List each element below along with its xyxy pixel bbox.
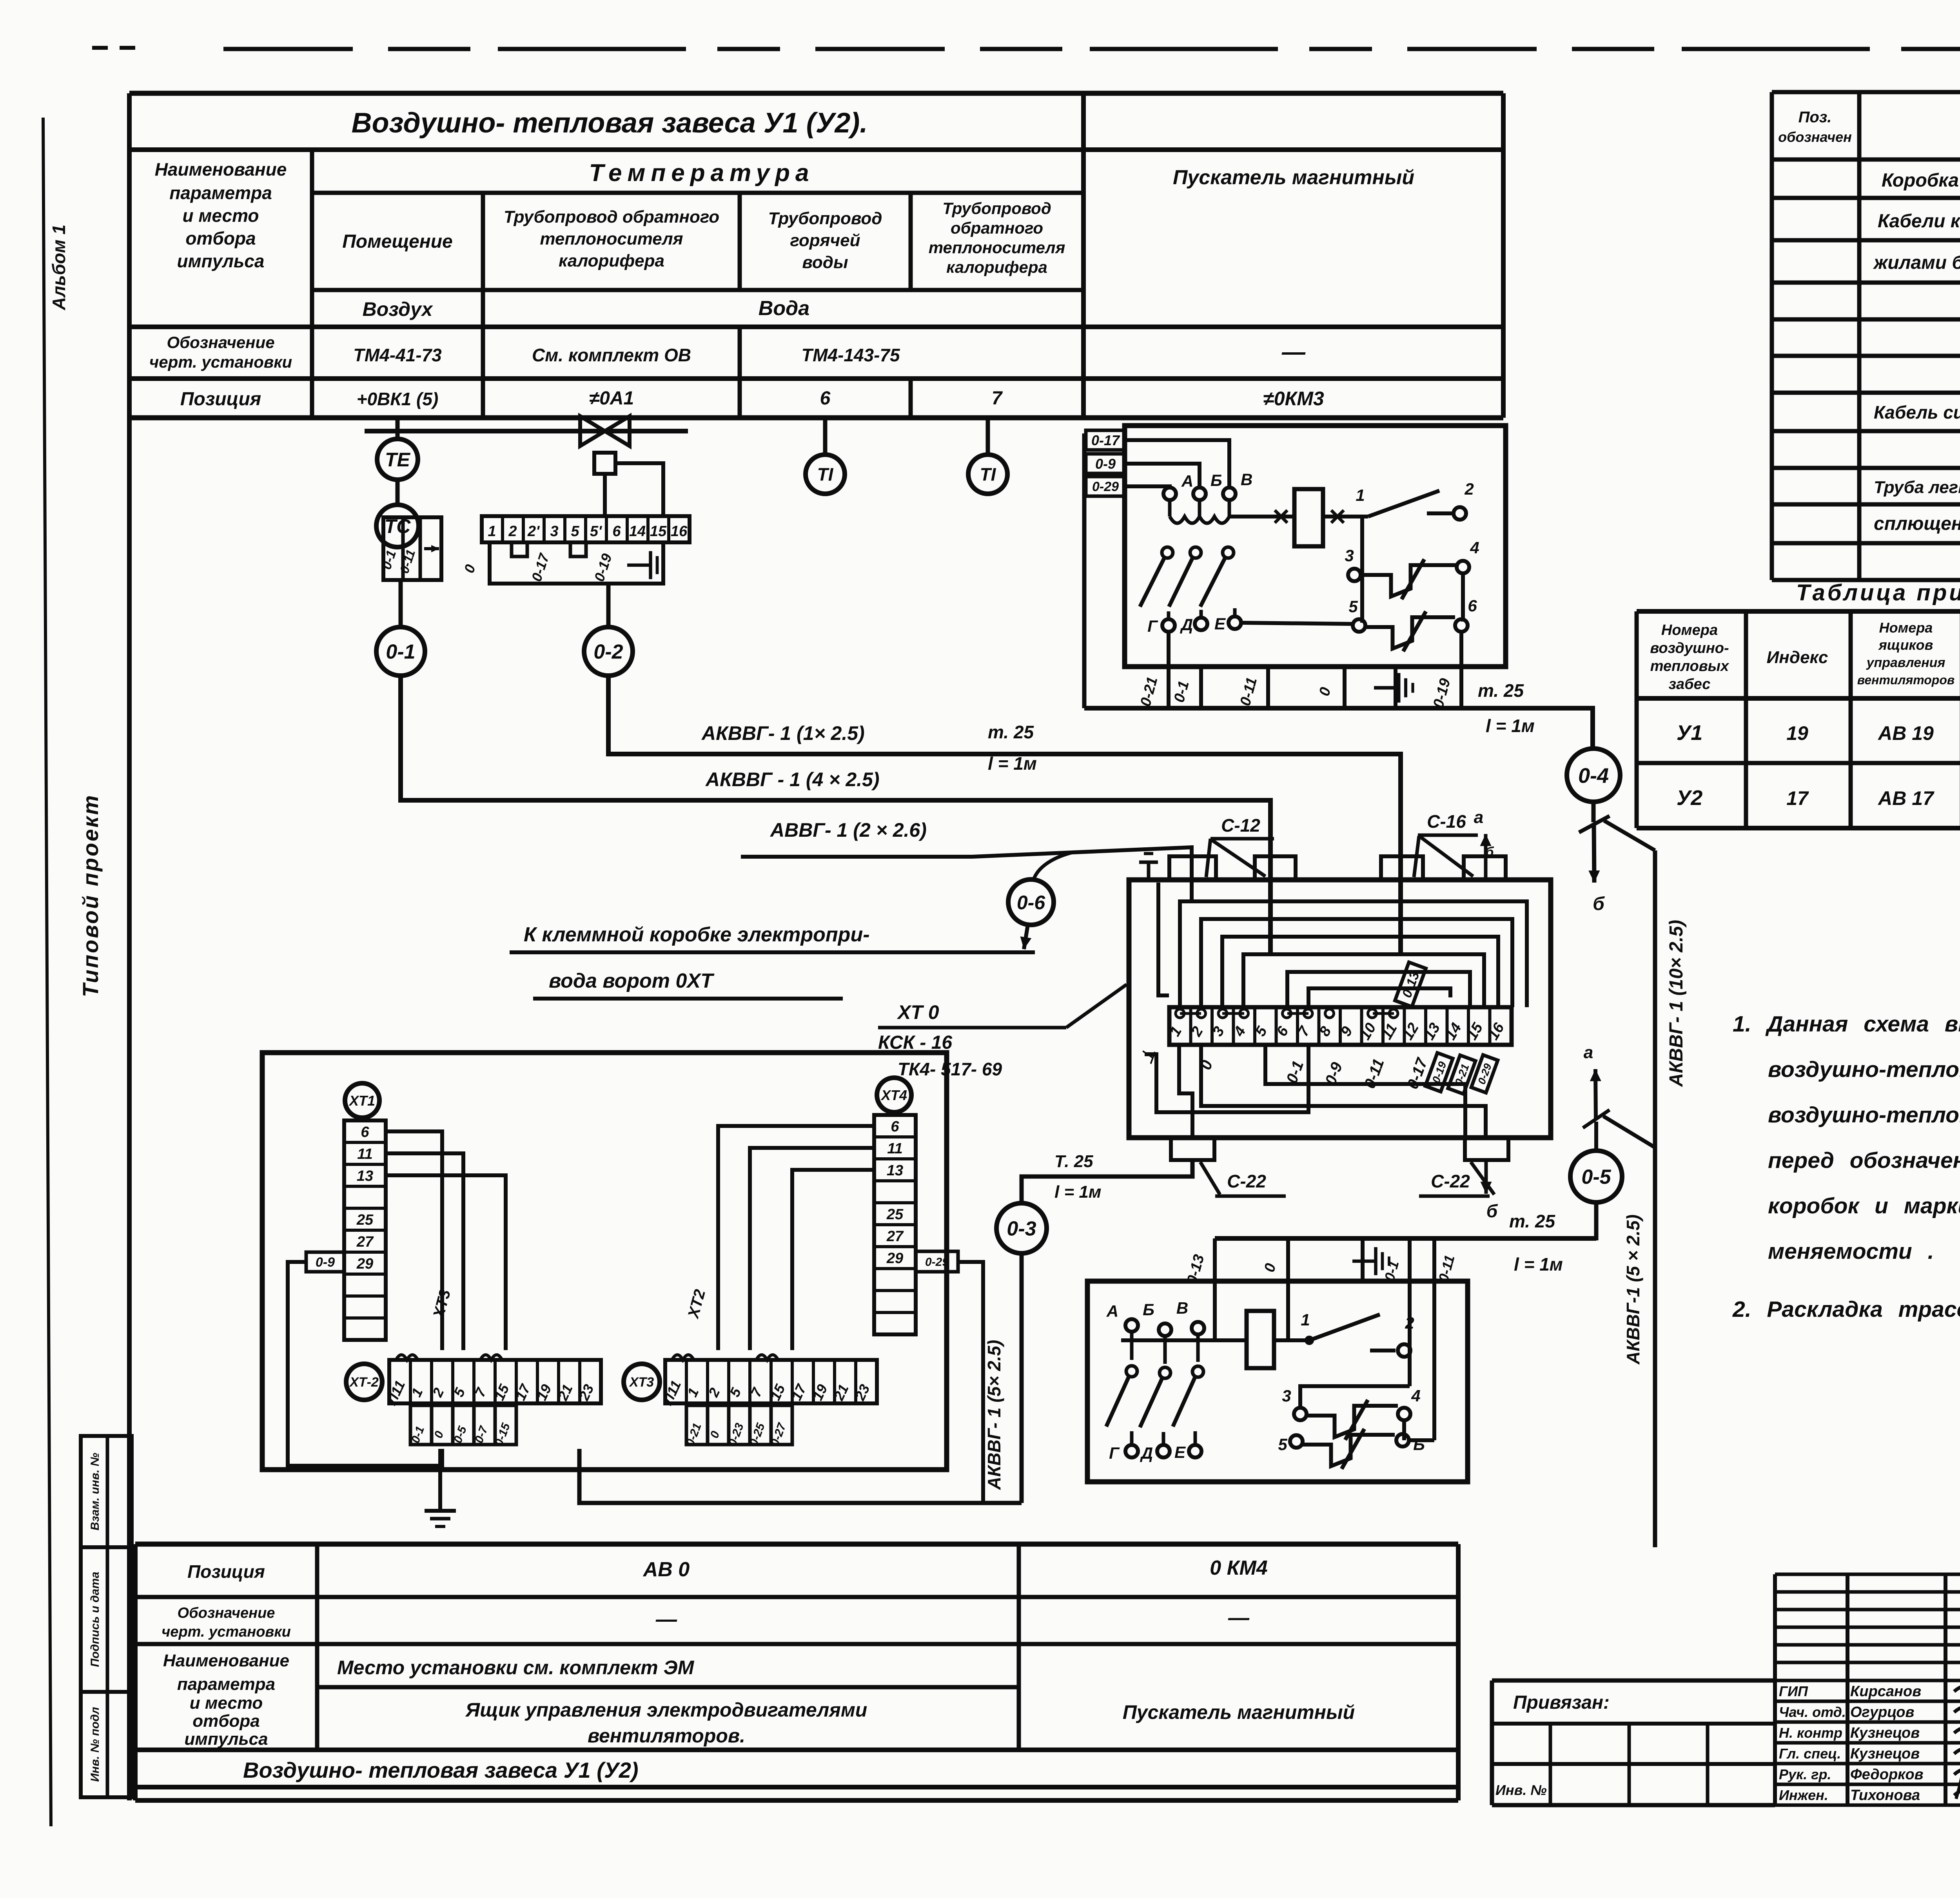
svg-text:воздушно-тепловых завес У2: воздушно-тепловых завес У2. с указанием … [1768,1102,1960,1128]
svg-text:горячей: горячей [790,231,860,250]
terminal column XT1 [344,1083,386,1340]
thermometer TI (pos 6) [823,418,828,454]
svg-text:2: 2 [1464,480,1474,498]
signature scribbles [1954,1686,1960,1704]
svg-text:0-6: 0-6 [1017,892,1045,914]
label C-22 left [1200,1162,1286,1196]
svg-text:Воздух: Воздух [363,298,434,320]
junction box internal wiring loops [1158,880,1527,1007]
svg-text:ТЕ: ТЕ [385,449,411,471]
svg-text:0-29: 0-29 [925,1256,949,1269]
svg-text:б: б [1593,894,1605,914]
svg-text:а: а [1474,808,1483,827]
svg-text:перед обозначением аппар: перед обозначением аппаратов, приборов, … [1768,1148,1960,1173]
svg-text:коробок и маркировке тра: коробок и маркировке трасс согласно табл… [1768,1193,1960,1218]
svg-text:2: 2 [1405,1314,1414,1332]
svg-text:С-22: С-22 [1431,1171,1470,1191]
junction box labels XT0 KSK-16 TK4-517-69 [878,984,1127,1079]
svg-text:11: 11 [357,1146,372,1162]
title block: binding box [1492,1680,1775,1805]
svg-text:l = 1м: l = 1м [1514,1254,1563,1274]
svg-text:вентиляторов: вентиляторов [1857,673,1955,687]
notes text block [1732,1012,1960,1322]
wires XT1 to strip XT-2 [386,1131,506,1350]
svg-text:Индекс: Индекс [1767,648,1828,667]
wire TE-TC [396,480,400,506]
table: applicability and route lengths [1637,580,1960,828]
svg-text:Номера: Номера [1661,622,1718,638]
svg-text:1: 1 [1356,486,1365,504]
svg-text:15: 15 [650,523,667,540]
svg-text:25: 25 [886,1206,904,1223]
svg-text:АВ 17: АВ 17 [1877,787,1935,809]
svg-text:Кирсанов: Кирсанов [1850,1683,1921,1700]
svg-text:6: 6 [612,523,621,540]
svg-text:жилами без защитного покро: жилами без защитного покрова [1873,252,1960,273]
svg-text:т. 25: т. 25 [988,722,1034,742]
svg-text:обратного: обратного [951,219,1043,237]
svg-text:АВ 0: АВ 0 [642,1558,690,1581]
lower pole contacts [1140,547,1235,619]
svg-text:калорифера: калорифера [946,258,1047,276]
svg-text:0-5: 0-5 [1581,1166,1611,1189]
svg-text:29: 29 [886,1250,903,1267]
svg-text:1: 1 [488,523,496,540]
terminal column XT4 [874,1078,916,1334]
svg-text:АКВВГ- 1 (5× 2.5): АКВВГ- 1 (5× 2.5) [984,1340,1004,1490]
svg-text:АВ 19: АВ 19 [1877,722,1934,744]
svg-text:Инв. №: Инв. № [1495,1782,1547,1798]
tag 0-9 at XT1 [306,1252,344,1272]
starter 2 lower pole contacts [1106,1366,1203,1445]
contact 5-6 with thermal element [1348,596,1477,651]
svg-text:4: 4 [1411,1387,1420,1405]
svg-text:воздушно-: воздушно- [1650,640,1729,656]
svg-text:У1: У1 [1677,721,1703,745]
wire 0-29 to terminal A [1125,486,1170,488]
svg-text:6: 6 [361,1124,369,1140]
svg-text:Б: Б [1143,1300,1154,1319]
svg-text:Чач. отд.: Чач. отд. [1779,1704,1846,1720]
svg-text:С-16: С-16 [1427,811,1466,832]
svg-text:3: 3 [1282,1387,1291,1405]
svg-text:Место установки см. комплект: Место установки см. комплект ЭМ [337,1657,695,1679]
svg-text:АКВВГ- 1 (1× 2.5): АКВВГ- 1 (1× 2.5) [701,722,865,744]
svg-text:Наименование: Наименование [163,1651,289,1670]
svg-text:К клеммной коробке электро: К клеммной коробке электропри- [524,923,870,946]
ground below strip XT-2 [425,1449,456,1526]
svg-text:0-3: 0-3 [1007,1218,1036,1240]
svg-text:0-1: 0-1 [386,641,415,663]
svg-text:19: 19 [1786,722,1808,744]
wire 0-2 down right (AKVVG-1 1x2.5) [608,676,1401,952]
svg-text:Т. 25: Т. 25 [1054,1152,1093,1171]
wire tag 0-29 [1086,477,1125,496]
node vertical [1360,517,1364,623]
svg-text:5': 5' [590,523,603,540]
svg-text:Коробка соединительная КСК: Коробка соединительная КСК-16 [1882,170,1960,191]
marker b below right gland [1480,1160,1498,1221]
svg-text:ТІ: ТІ [817,464,834,485]
svg-text:В: В [1241,470,1252,489]
svg-text:Труба легкая неоцинкованная: Труба легкая неоцинкованная с полностью [1874,478,1960,497]
wire TC box to 0-1 circle [399,580,403,627]
svg-text:0-4: 0-4 [1578,764,1609,787]
wires XT4 to strip XT3 [718,1126,874,1350]
wire coil to contact [1274,1338,1309,1342]
marker a above 0-5 [1583,1043,1655,1151]
svg-text:14: 14 [629,523,646,540]
svg-text:Таблица применяемости и д: Таблица применяемости и длин трасс. [1796,580,1960,605]
text to gates terminal box [510,923,1035,999]
svg-text:Кабели контрольные с алюмин: Кабели контрольные с алюминиевыми [1878,211,1960,232]
wire 0-17 to terminal V [1125,440,1229,488]
svg-text:5: 5 [1278,1435,1287,1454]
wire tag 0-9 [1086,454,1125,473]
svg-text:4: 4 [1470,538,1479,557]
svg-text:забес: забес [1669,676,1711,692]
junction box lower wiring [1145,1045,1486,1138]
svg-text:ГИП: ГИП [1779,1683,1808,1699]
svg-text:ТК4- 517- 69: ТК4- 517- 69 [898,1059,1002,1079]
label C-22 right [1419,1162,1494,1196]
svg-text:5: 5 [1348,597,1358,616]
svg-text:У2: У2 [1677,786,1703,810]
wire coil to contact node [1323,515,1368,518]
svg-text:3: 3 [550,523,558,540]
terminal strip XT3 [624,1355,877,1408]
svg-text:7: 7 [992,388,1003,409]
svg-text:Тихонова: Тихонова [1850,1787,1920,1804]
svg-text:Температура: Температура [589,160,815,187]
label C-12 with leaders [1206,815,1274,877]
gate control terminal enclosure [262,1053,947,1470]
svg-text:Поз.: Поз. [1798,109,1832,126]
svg-text:5: 5 [571,523,579,540]
title block: signature table [1775,1574,1960,1805]
svg-text:13: 13 [887,1162,903,1179]
bottom gland C-22 left [1171,1138,1214,1160]
svg-text:Инжен.: Инжен. [1779,1787,1828,1803]
temperature sensor TC [376,505,419,547]
starter 2 main node wire [1121,1338,1247,1342]
terminal strip XT-2 [346,1355,601,1408]
svg-text:l = 1м: l = 1м [1486,716,1535,736]
temperature sensor TE [377,439,418,480]
svg-text:Обозначение: Обозначение [167,333,274,352]
starter 2 contact 1-2 [1301,1311,1414,1357]
svg-text:Воздушно- тепловая завес: Воздушно- тепловая завеса У1 (У2). [352,107,868,139]
svg-text:ТМ4-143-75: ТМ4-143-75 [801,345,900,365]
contact 1-2 [1356,480,1474,520]
svg-text:Привязан:: Привязан: [1513,1692,1610,1713]
svg-text:КСК - 16: КСК - 16 [878,1032,952,1053]
svg-text:16: 16 [671,523,688,540]
wire from table to TE [396,418,400,439]
svg-text:1: 1 [1301,1311,1310,1329]
wire 0-5 down to starter 2 line [1594,1202,1599,1240]
magnetic starter column header [1173,166,1414,410]
svg-text:l = 1м: l = 1м [1054,1182,1101,1202]
XT-2 bottom tags [409,1405,516,1448]
svg-text:29: 29 [356,1256,373,1272]
svg-text:б: б [1485,845,1494,859]
0-4 cable cut to b [1579,802,1687,1547]
wire 0-1 down and right (AKVVG-1 4x2.5) [401,676,1270,952]
svg-text:С-12: С-12 [1221,815,1260,836]
svg-text:13: 13 [357,1168,373,1184]
trace circle 0-4 [1567,749,1620,802]
marker a above gland 4 [1474,808,1494,880]
svg-text:Трубопровод: Трубопровод [942,199,1051,218]
svg-text:меняемости .: меняемости . [1768,1239,1934,1264]
starter 2 contact 3-4 [1282,1386,1420,1440]
starter output wire to 0-4 (pipe t.25) [1084,708,1593,747]
svg-text:А: А [1181,472,1193,490]
svg-text:≠0А1: ≠0А1 [589,388,634,409]
trace circle 0-2 [584,627,633,676]
svg-text:воды: воды [802,253,848,272]
svg-text:т. 25: т. 25 [1478,680,1524,701]
wire tag 0-17 [1086,430,1125,450]
magnetic starter KM3 enclosure [1125,426,1506,667]
margin boxes with inventory labels [81,1436,132,1797]
label C-16 with leaders [1414,811,1478,877]
svg-text:АВВГ- 1 (2 × 2.6): АВВГ- 1 (2 × 2.6) [769,819,927,841]
svg-text:Кузнецов: Кузнецов [1850,1746,1920,1762]
wire 0-3 to junction box [1022,1160,1192,1202]
svg-text:Помещение: Помещение [342,231,452,252]
junction box XT0 KSK-16 enclosure [1129,880,1551,1138]
svg-text:обозначен: обозначен [1778,129,1852,145]
cable to gates label AVVG-1(2x2.6) and 0-6 [741,819,1192,880]
table T1 title text [352,107,868,139]
svg-text:АКВВГ-1 (5 × 2.5): АКВВГ-1 (5 × 2.5) [1623,1215,1643,1365]
svg-text:теплоносителя: теплоносителя [540,229,683,248]
svg-text:6: 6 [891,1118,899,1135]
svg-text:27: 27 [886,1228,904,1245]
bottom gland C-22 right [1465,1138,1508,1160]
tag 0-29 at XT4 [916,1251,958,1272]
svg-text:Трубопровод обратного: Трубопровод обратного [504,207,719,227]
svg-text:0-2: 0-2 [593,641,623,663]
svg-text:С-22: С-22 [1227,1171,1266,1191]
svg-text:вентиляторов.: вентиляторов. [588,1725,745,1747]
svg-text:Подпись и дата: Подпись и дата [89,1572,102,1667]
svg-text:Обозначение: Обозначение [178,1605,275,1621]
svg-text:теплоносителя: теплоносителя [929,238,1065,257]
svg-text:1. Данная схема внешни: 1. Данная схема внешних проводок выполне… [1733,1012,1960,1037]
wire 0-9 to terminal B [1125,464,1200,488]
svg-text:параметра: параметра [169,183,272,203]
table: parts list (top-right) [1772,92,1960,580]
gland C-12 left pair [1169,856,1216,880]
bottom table texts [162,1557,1355,1782]
starter bottom risers with tags [1137,632,1461,710]
svg-text:Кузнецов: Кузнецов [1850,1725,1920,1741]
svg-text:Позиция: Позиция [180,389,261,410]
table: parameter header table (top-left) [129,93,1503,1800]
svg-text:6: 6 [820,388,831,409]
svg-text:2': 2' [527,523,540,540]
svg-text:Типовой проект: Типовой проект [78,794,103,997]
table T1 header texts [149,159,1065,410]
contact 3-4 with thermal element [1345,538,1479,622]
svg-text:Номера: Номера [1879,620,1933,636]
trace circle 0-1 [376,627,425,676]
svg-text:+0ВК1 (5): +0ВК1 (5) [357,389,439,409]
svg-text:Е: Е [1214,615,1226,633]
magnetic starter KM4 enclosure [1087,1281,1468,1482]
svg-text:Ящик управления электро: Ящик управления электродвигателями [465,1699,867,1721]
svg-text:отбора: отбора [185,228,256,248]
svg-text:б: б [1486,1201,1498,1221]
svg-text:сплющенным гратом.: сплющенным гратом. [1874,513,1960,534]
starter terminals A B V [1163,470,1252,500]
bottom collector wire [579,1449,1022,1503]
svg-text:17: 17 [1786,787,1809,809]
junction box terminal strip 1-16 [1167,1007,1512,1045]
svg-text:Федорков: Федорков [1850,1766,1924,1783]
svg-text:импульса: импульса [184,1729,268,1749]
svg-text:а: а [1584,1043,1593,1062]
starter left feeder wire [1082,433,1087,708]
svg-text:ТМ4-41-73: ТМ4-41-73 [353,345,442,365]
wire 0-3 down to loop [1020,1253,1024,1503]
svg-text:Взам. инв. №: Взам. инв. № [89,1453,102,1530]
trace circle 0-3 [996,1203,1047,1253]
svg-text:См. комплект ОВ: См. комплект ОВ [532,345,691,365]
svg-text:Кабель силовой с алюминиевым: Кабель силовой с алюминиевыми жилами [1874,402,1960,422]
terminals G D E [1147,615,1353,635]
svg-text:черт. установки: черт. установки [149,353,292,371]
svg-text:Е: Е [1174,1443,1186,1461]
trace circle 0-6 [1008,879,1054,925]
svg-text:черт. установки: черт. установки [162,1624,291,1640]
table: bottom equipment table [135,1544,1458,1800]
XT3 bottom tags [684,1405,792,1448]
starter 2 terminals G D E [1109,1443,1201,1462]
svg-text:Вода: Вода [759,297,809,320]
starter 2 contact 5-B [1278,1429,1434,1469]
valve with actuator [365,416,688,474]
svg-text:и место: и место [190,1693,263,1713]
trace circle 0-5 [1570,1151,1622,1202]
svg-text:0-9: 0-9 [316,1255,335,1270]
svg-text:Б: Б [1210,471,1222,489]
svg-text:импульса: импульса [177,251,265,271]
junction box vent symbol [1139,854,1158,880]
svg-text:воздушно-тепловой завесы: воздушно-тепловой завесы У1 и действител… [1768,1057,1960,1082]
svg-text:2. Раскладка трасс 0-1 ...: 2. Раскладка трасс 0-1 ...... 0-6 лист 1… [1732,1297,1960,1322]
svg-text:В: В [1176,1299,1188,1317]
svg-text:отбора: отбора [192,1711,260,1731]
sensor terminal box with 0-1 0-11 and arrow [379,517,441,580]
svg-text:Позиция: Позиция [187,1561,265,1582]
svg-text:2: 2 [508,523,517,540]
svg-text:3: 3 [1345,546,1354,565]
svg-text:6: 6 [1468,596,1477,615]
svg-text:вода ворот 0ХТ: вода ворот 0ХТ [549,970,715,992]
svg-text:0 КМ4: 0 КМ4 [1210,1557,1268,1579]
svg-text:ящиков: ящиков [1878,637,1933,653]
svg-text:Наименование: Наименование [155,159,287,179]
valve terminal strip 1..16 [482,516,690,542]
svg-text:25: 25 [356,1212,374,1228]
svg-text:А: А [1106,1302,1118,1320]
svg-text:Пускатель магнитный: Пускатель магнитный [1123,1701,1355,1723]
svg-text:ХТ3: ХТ3 [629,1375,654,1390]
svg-text:Н. контр: Н. контр [1779,1725,1842,1741]
terminal strip bottom labels [1136,962,1498,1094]
wire valve actuator to terminal strip [615,463,663,516]
svg-text:ХТ4: ХТ4 [880,1087,907,1103]
svg-text:Б: Б [1413,1435,1425,1454]
svg-text:управления: управления [1866,655,1945,670]
wire from 0-9 tag loop [288,1262,442,1466]
svg-text:Инв. № подл: Инв. № подл [89,1707,102,1782]
svg-text:ТІ: ТІ [980,464,996,485]
svg-text:—: — [655,1608,677,1631]
svg-text:l = 1м: l = 1м [988,753,1037,774]
parts list texts [1778,109,1960,573]
svg-text:ХТ1: ХТ1 [348,1093,375,1109]
svg-text:0-29: 0-29 [1092,479,1119,494]
svg-text:калорифера: калорифера [559,251,664,270]
svg-text:0-17: 0-17 [1091,432,1120,448]
svg-text:Рук. гр.: Рук. гр. [1779,1766,1831,1782]
svg-text:Г: Г [1147,617,1158,635]
gland C-16 right pair [1381,856,1423,880]
svg-text:≠0КМ3: ≠0КМ3 [1263,388,1324,410]
svg-text:и место: и место [182,205,259,226]
starter winding row [1170,500,1294,523]
valve strip lower bracket and tags [461,542,664,584]
svg-text:—: — [1281,339,1306,365]
wire strip to 0-2 circle [606,584,611,627]
svg-text:Воздушно- тепловая завеса: Воздушно- тепловая завеса У1 (У2) [243,1758,639,1782]
svg-text:АКВВГ - 1 (4 × 2.5): АКВВГ - 1 (4 × 2.5) [705,769,879,790]
starter 2 coil [1247,1311,1274,1368]
svg-text:Д: Д [1140,1444,1153,1462]
starter coil [1294,489,1323,546]
svg-text:АКВВГ- 1 (10× 2.5): АКВВГ- 1 (10× 2.5) [1666,920,1687,1087]
svg-text:Трубопровод: Трубопровод [768,209,882,228]
svg-text:Альбом 1: Альбом 1 [49,225,69,310]
starter 2 top feeder line t.25 [1215,1236,1596,1241]
starter 2 terminals A B V [1106,1299,1204,1364]
thermometer TI (pos 7) [986,418,990,454]
wire from 0-29 tag to bottom loop [957,1262,983,1503]
svg-text:Д: Д [1180,615,1193,634]
svg-text:11: 11 [887,1140,902,1157]
svg-text:параметра: параметра [177,1675,275,1694]
svg-text:Гл. спец.: Гл. спец. [1779,1746,1841,1762]
svg-text:Огурцов: Огурцов [1850,1704,1914,1720]
svg-text:0-9: 0-9 [1095,456,1116,472]
svg-text:Пускатель магнитный: Пускатель магнитный [1173,166,1414,189]
svg-text:ХТ 0: ХТ 0 [897,1001,939,1023]
starter 2 risers with tags [1184,1238,1457,1440]
svg-text:Г: Г [1109,1444,1120,1462]
svg-text:тепловых: тепловых [1650,658,1730,674]
svg-text:т. 25: т. 25 [1509,1211,1555,1231]
sheet left border [43,118,51,1826]
applicability table texts [1650,620,1960,823]
svg-text:27: 27 [356,1234,374,1250]
svg-text:—: — [1228,1606,1250,1630]
arrow from 0-6 to gates terminal box [1024,925,1028,949]
